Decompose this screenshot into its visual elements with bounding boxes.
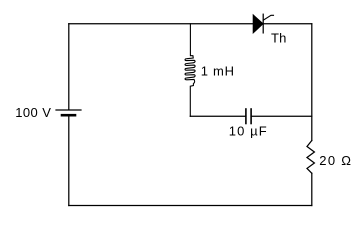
svg-text:10 µF: 10 µF	[229, 124, 268, 139]
svg-text:1 mH: 1 mH	[201, 64, 235, 79]
svg-text:100 V: 100 V	[15, 105, 51, 120]
svg-text:20 Ω: 20 Ω	[319, 153, 352, 168]
svg-text:Th: Th	[271, 31, 287, 46]
